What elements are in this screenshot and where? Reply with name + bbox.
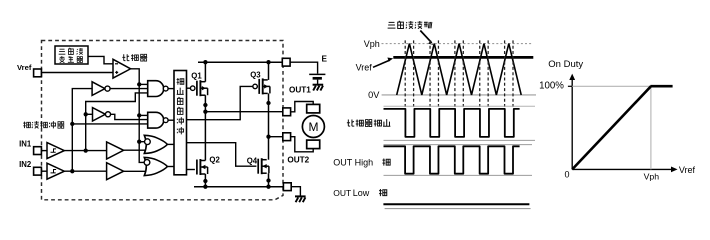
node: rail to Q1 [203,60,207,64]
motor M [307,104,320,113]
wire: buffer B3 out to G3 input [124,149,148,151]
ground rail [194,186,283,188]
wire: IN2 net [64,170,106,172]
wire: OUT1 [205,111,282,113]
svg-text:IN2: IN2 [19,160,32,169]
schmitt buffer B1 (IN1) [41,150,47,152]
ground below battery [313,84,324,86]
dashed sampling lines [404,40,406,107]
op-amp comparator U1 [113,59,131,78]
wire: G1 out to lockout box [168,88,174,90]
wire: box out to Q4 gate [187,143,257,167]
schmitt buffer B2 (IN2) [41,170,47,172]
buffer B3 [107,142,124,159]
OR gate G3 [144,135,167,153]
inverter INV1 [92,82,105,96]
svg-text:Q4: Q4 [247,156,258,165]
NAND gate G1 [148,81,164,97]
buffer B4 [107,163,124,180]
OUT High rails [384,144,533,146]
shoot-through lockout box 防止同时导通 [174,71,187,175]
wire: box out to Q3 gate [187,86,253,119]
NAND gate G2 [148,112,164,128]
svg-text:M: M [309,120,319,134]
svg-text:100%: 100% [539,81,564,92]
arrow to triangle wave [420,31,430,42]
node: PWM to NAND G2 [137,113,141,117]
wire: IN2 riser to inverter INV1 [72,89,92,172]
node: IN1 riser to inverter INV2 [84,112,88,116]
svg-text:OUT: OUT [333,188,351,198]
supply pad E [282,58,290,66]
triangle waveform [397,44,522,95]
node: PWM to OR G3 [137,140,141,144]
svg-text:Low: Low [353,188,370,198]
node: IN1 to vertical riser [84,148,88,152]
svg-text:Q1: Q1 [191,72,202,81]
wire: motor to OUT2 pad [291,137,314,152]
wire: PWM tap to G3 bubble [139,141,145,143]
svg-text:IN1: IN1 [19,139,32,148]
svg-text:0V: 0V [368,90,380,100]
wire: IN1 net [64,150,106,152]
svg-text:OUT High: OUT High [333,157,373,167]
inverter INV2 [93,108,106,121]
svg-text:Vref: Vref [17,63,32,72]
svg-text:Vref: Vref [679,165,696,175]
wire: Q2 source to ground rail [204,174,206,187]
svg-text:Q3: Q3 [250,70,261,79]
wire: comparator output (PWM net) [131,69,146,163]
wire: Vref to comparator + input [41,72,113,74]
OUT2 node column [268,93,270,159]
wire: G4 out to lockout box [167,166,174,168]
label 磁滞缓冲器 (hysteresis buffer) [23,122,30,129]
OUT2 pad and label [283,133,291,141]
wire: trigen output to comparator inverting input [88,56,113,63]
svg-text:OUT1: OUT1 [289,85,311,94]
wire: box out to Q1 gate [187,87,191,89]
node: IN2 to vertical riser [70,169,74,173]
wire: IN2 tap to NAND G2 input [72,123,147,125]
wire: IN1 riser to NAND G1 third input [86,93,148,151]
wire: G2 out to lockout box [168,119,174,121]
guide lines [572,85,651,87]
duty curve [572,86,651,169]
Vref level thick line [393,56,533,59]
comparator output label 比较器输出 [347,119,354,126]
comparator output rails [384,105,536,107]
svg-text:E: E [322,54,328,63]
OUT1 node column [204,95,206,160]
wire: buffer B4 out to G4 input [124,170,148,172]
wire: Q1 source up [204,62,206,81]
wire: Q4 source to ground rail [268,173,270,187]
wire: box out to Q2 gate [187,169,195,171]
waveform label 三角波波形 [388,22,396,28]
wire: OUT2 [269,136,283,138]
OUT Low waveform (flat) [383,203,529,205]
svg-text:Q2: Q2 [209,156,220,165]
wire: OUT1 pad to motor [291,102,314,112]
OUT High waveform [384,146,520,173]
ground symbol bottom right [295,195,306,197]
triangle wave generator block [55,46,88,64]
IC boundary dashed box [42,41,284,200]
node: IN2 riser to G2 third input [70,122,74,126]
wire: G3 out to lockout box [167,143,174,145]
wire: Q3 source up [268,62,270,80]
wire: INV1 out to G1 [110,88,148,90]
svg-text:0: 0 [565,169,570,179]
wire: pad to ground [291,187,300,197]
node: rail to Q3 [266,60,270,64]
wire: pad to battery E [290,62,318,73]
svg-text:On Duty: On Duty [548,59,583,70]
node: PWM to NAND G1 [137,82,141,86]
comparator output waveform [384,109,520,137]
svg-text:OUT2: OUT2 [287,156,309,165]
ground pad bottom right [283,183,291,191]
wire: INV2 out to G2 [111,114,148,119]
top supply rail [198,61,282,63]
svg-text:Vph: Vph [644,172,660,182]
svg-text:Vph: Vph [364,39,380,49]
label 比较器 (comparator) [122,54,129,60]
svg-text:Vref: Vref [356,63,373,73]
OR gate G4 [144,157,167,175]
